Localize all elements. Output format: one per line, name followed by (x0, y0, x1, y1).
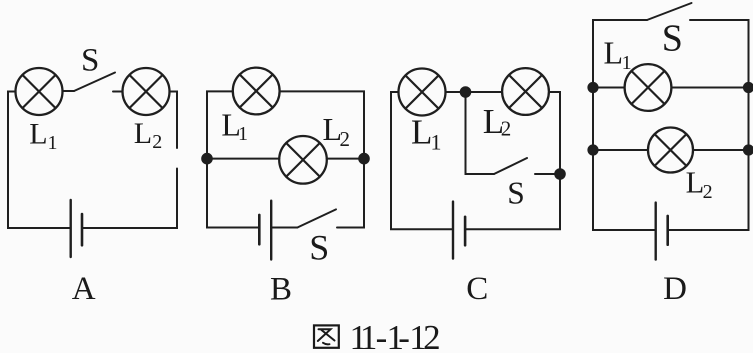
svg-text:S: S (507, 175, 525, 210)
svg-text:1: 1 (238, 123, 248, 145)
svg-text:L: L (134, 117, 152, 150)
svg-text:1: 1 (48, 132, 58, 154)
svg-text:2: 2 (340, 127, 351, 151)
svg-text:L: L (686, 166, 705, 200)
svg-text:2: 2 (152, 131, 162, 153)
svg-text:1: 1 (431, 130, 442, 155)
svg-text:L: L (604, 35, 624, 71)
svg-text:11-1-12: 11-1-12 (350, 318, 441, 353)
svg-text:D: D (663, 271, 687, 307)
svg-text:L: L (411, 113, 432, 152)
svg-text:2: 2 (501, 117, 512, 141)
svg-text:L: L (29, 117, 47, 150)
svg-text:S: S (662, 18, 683, 60)
svg-text:S: S (81, 43, 99, 79)
svg-text:C: C (466, 271, 488, 307)
svg-text:A: A (72, 271, 96, 307)
svg-text:1: 1 (622, 52, 632, 74)
svg-text:2: 2 (703, 181, 713, 203)
svg-text:S: S (309, 227, 329, 267)
svg-text:B: B (270, 271, 292, 307)
